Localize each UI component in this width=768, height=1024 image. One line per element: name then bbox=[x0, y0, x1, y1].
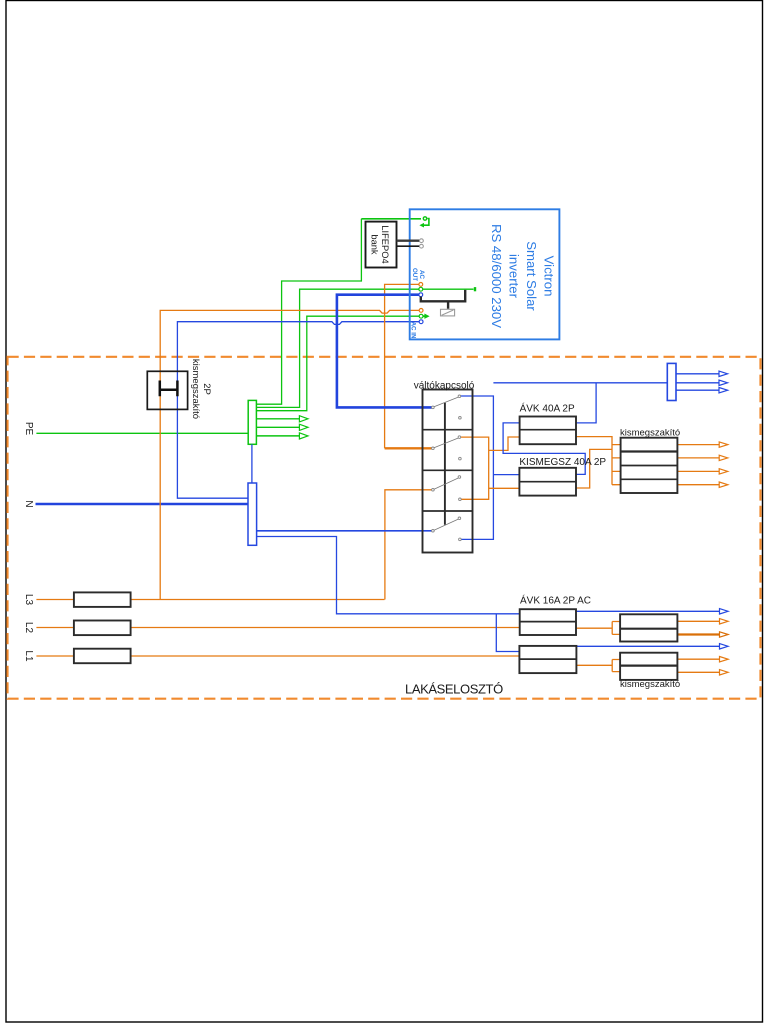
svg-text:kismegszakító: kismegszakító bbox=[190, 359, 201, 419]
wire KISMEGSZ row2 out joins feed bbox=[576, 449, 612, 488]
svg-text:LIFEPO4: LIFEPO4 bbox=[380, 225, 390, 263]
svg-text:PE: PE bbox=[23, 422, 34, 436]
battery B1 LIFEPO4 box bbox=[366, 222, 397, 268]
wire transfer sw contact2-contact3 orange U bbox=[459, 437, 488, 499]
wire AVK16A box1 blue out arrow bbox=[576, 610, 719, 612]
wire AVK16A box2 blue out arrow bbox=[576, 645, 719, 647]
wire top busbar arrow 1 bbox=[676, 373, 719, 375]
svg-text:Smart Solar: Smart Solar bbox=[524, 241, 539, 311]
transfer switch pole 1 bbox=[432, 406, 435, 409]
wire L1 line bbox=[36, 655, 519, 657]
node battery terminal minus bbox=[420, 244, 424, 248]
wire lower kismegszakito1 out arrow 2 thick bbox=[677, 633, 719, 635]
svg-text:ÁVK 16A 2P AC: ÁVK 16A 2P AC bbox=[520, 594, 591, 607]
node AC IN blue terminal bbox=[419, 320, 423, 324]
wire orange jog to AVK40 row2 bbox=[489, 437, 520, 450]
wire AC IN green arrow bbox=[423, 315, 425, 317]
wire N busbar to transfer switch pole 4 bbox=[257, 530, 433, 532]
fuse F3 L2 bbox=[74, 621, 131, 636]
label AC OUT bbox=[411, 268, 425, 281]
wire L3 to transfer switch pole 3 bbox=[385, 490, 433, 600]
transfer switch pole 4 bbox=[432, 530, 435, 533]
breaker F1 2P poles H symbol bbox=[160, 381, 178, 397]
fuse F2 L3 bbox=[74, 592, 131, 607]
wire lower kismegszakito2 out arrow 2 bbox=[677, 671, 719, 673]
svg-text:Victron: Victron bbox=[542, 256, 557, 297]
svg-text:ÁVK 40A 2P: ÁVK 40A 2P bbox=[520, 402, 575, 415]
wire PE busbar arrow 1 bbox=[256, 418, 299, 420]
wire L3 line bbox=[36, 599, 384, 601]
svg-text:váltókapcsoló: váltókapcsoló bbox=[414, 381, 475, 392]
wire green battery-PE loop from LIFEPO4 to inverter bbox=[361, 218, 421, 220]
wire green loop arrow bbox=[423, 219, 429, 226]
breaker Q3 AVK 16A box1 bbox=[520, 609, 576, 635]
inverter label text rotated bbox=[489, 224, 557, 328]
node green terminal circle top bbox=[423, 217, 426, 220]
svg-text:inverter: inverter bbox=[507, 254, 522, 299]
wire AVK40 row2 out to kismegszakito feed bbox=[576, 437, 612, 485]
node battery terminal plus bbox=[420, 239, 424, 243]
wire PE busbar arrow 2 bbox=[256, 426, 299, 428]
svg-text:kismegszakító: kismegszakító bbox=[620, 428, 680, 439]
breaker F1 2P kismegszakito box bbox=[147, 371, 187, 409]
node AC OUT blue terminal bbox=[419, 293, 423, 297]
wire AC OUT orange to transfer switch pole 2 bbox=[385, 284, 421, 448]
wire 2P breaker blue: AC IN to N busbar bbox=[177, 322, 421, 499]
svg-text:OUT: OUT bbox=[411, 268, 418, 281]
relay coil K1 bbox=[441, 309, 455, 316]
svg-text:L2: L2 bbox=[23, 622, 34, 634]
node AC OUT green terminal bbox=[419, 287, 423, 291]
wire lower kismegszakito2 out arrow 1 bbox=[677, 658, 719, 660]
svg-text:L3: L3 bbox=[23, 594, 34, 606]
wire AC OUT green end tick bbox=[474, 287, 476, 291]
wire AVK16A box1 orange out to lower kismegszakito 1 bbox=[576, 622, 620, 635]
wire N busbar to AVK16A feed bbox=[257, 537, 520, 614]
transfer switch pole 2 bbox=[432, 447, 435, 450]
wire PE-N bond bbox=[251, 444, 253, 483]
svg-text:RS 48/6000 230V: RS 48/6000 230V bbox=[489, 224, 504, 328]
svg-text:bank: bank bbox=[370, 234, 380, 255]
node AC IN orange terminal bbox=[419, 309, 423, 313]
breaker Q1 AVK 40A 2P box bbox=[520, 417, 576, 445]
wire L2 line bbox=[36, 627, 519, 629]
fuse F4 L1 bbox=[74, 649, 131, 664]
breaker Q2 KISMEGSZ 40A 2P box bbox=[519, 468, 576, 496]
wire PE busbar arrow 3 bbox=[256, 435, 299, 437]
wire lower kismegszakito1 out arrow 1 bbox=[677, 620, 719, 622]
wire top busbar arrow 2 bbox=[676, 382, 719, 384]
label 2P kismegszakito rotated bbox=[190, 359, 212, 419]
node AC IN green terminal bbox=[419, 314, 423, 318]
wire N line bbox=[36, 503, 249, 506]
breaker group lower kismegszakito box2 bbox=[620, 653, 677, 680]
N busbar bbox=[248, 483, 257, 545]
svg-text:AC: AC bbox=[418, 270, 425, 279]
svg-text:kismegszakító: kismegszakító bbox=[620, 679, 680, 690]
wire transfer sw contact1 to top busbar bbox=[459, 396, 493, 539]
transfer switch S1 valtokapcsolo box bbox=[423, 390, 473, 553]
inverter U1 Victron box bbox=[410, 209, 560, 339]
breaker group lower kismegszakito box1 bbox=[620, 614, 677, 641]
wire AC OUT blue to transfer switch pole 1 bbox=[337, 295, 433, 408]
wire upper kismegszakito out arrows bbox=[677, 444, 719, 446]
LAKASELOSZTO dashed enclosure bbox=[8, 357, 761, 699]
wire 2P breaker orange: AC IN to L3 bbox=[160, 310, 421, 599]
wire top busbar arrow 3 bbox=[676, 389, 719, 391]
svg-text:LAKÁSELOSZTÓ: LAKÁSELOSZTÓ bbox=[405, 682, 503, 697]
breaker Q4 AVK 16A box2 bbox=[519, 646, 576, 673]
svg-text:2P: 2P bbox=[201, 383, 212, 395]
battery label rotated bbox=[370, 225, 391, 263]
breaker group upper kismegszakito box bbox=[621, 438, 678, 493]
svg-text:N: N bbox=[23, 500, 34, 507]
node AC OUT orange terminal bbox=[419, 283, 423, 287]
svg-text:AC IN: AC IN bbox=[410, 322, 417, 339]
wire KISMEGSZ row1 out to AVK40 row1 in bbox=[503, 423, 585, 475]
transfer switch linkage bar bbox=[444, 403, 446, 525]
wire battery DC plus bbox=[397, 239, 420, 241]
PE busbar bbox=[248, 400, 256, 444]
top blue busbar bbox=[667, 363, 676, 400]
relay transfer contact inside inverter bbox=[421, 290, 465, 301]
wire AVK40 row1 out to top busbar bbox=[576, 383, 596, 423]
svg-text:L1: L1 bbox=[23, 650, 34, 662]
wire orange to KISMEGSZ row2 in bbox=[489, 487, 520, 489]
wire PE line bbox=[36, 432, 248, 434]
wire AC IN green bbox=[256, 316, 421, 411]
svg-text:KISMEGSZ 40A 2P: KISMEGSZ 40A 2P bbox=[519, 457, 606, 468]
wire AC OUT green bbox=[256, 289, 473, 407]
wire battery DC minus bbox=[397, 245, 420, 247]
wire AVK16A box2 orange out to lower kismegszakito 2 bbox=[576, 660, 620, 672]
transfer switch pole 3 bbox=[432, 489, 435, 492]
